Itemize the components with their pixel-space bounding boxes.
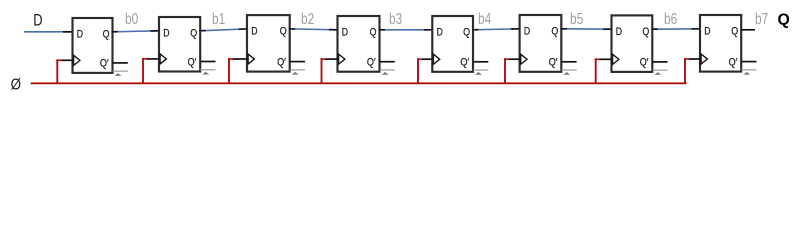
ground / termination marker below U5.Q-bar (473, 70, 488, 75)
svg-text:D: D (33, 11, 42, 29)
svg-text:b1: b1 (212, 11, 225, 28)
wire: U7.Q to U8.D (net b6) (651, 28, 701, 30)
svg-text:Ø: Ø (11, 76, 21, 93)
svg-text:Q: Q (103, 28, 110, 40)
D flip-flop U8 (700, 15, 741, 72)
svg-text:D: D (704, 25, 710, 37)
svg-text:D: D (163, 27, 169, 39)
svg-text:b4: b4 (478, 11, 492, 28)
ground / termination marker below U1.Q-bar (113, 71, 128, 76)
svg-text:Q′: Q′ (640, 57, 649, 69)
ground / termination marker below U7.Q-bar (652, 70, 667, 75)
svg-text:Q′: Q′ (460, 57, 469, 69)
svg-text:Q: Q (642, 26, 649, 38)
wire: clock bus riser to U3 CLK pin (228, 58, 248, 83)
svg-text:Q′: Q′ (367, 57, 376, 69)
wire: U2.Q to U3.D (net b1) (199, 29, 248, 31)
wire: serial input D to U1.D pin (24, 31, 74, 33)
svg-text:b5: b5 (570, 11, 583, 28)
svg-text:D: D (524, 25, 530, 37)
wire: clock bus riser to U8 CLK pin (684, 58, 701, 83)
D flip-flop U4 (338, 16, 380, 72)
D flip-flop U2 (159, 17, 200, 72)
svg-text:D: D (437, 26, 443, 38)
svg-text:Q′: Q′ (100, 58, 109, 70)
svg-text:b6: b6 (664, 11, 677, 28)
svg-text:Q: Q (551, 25, 558, 37)
wire: U8.Q serial output stub (740, 29, 755, 31)
wire: U4.Q-bar output stub (380, 61, 395, 63)
wire: U5.Q to U6.D (net b4) (472, 29, 521, 30)
svg-text:Q′: Q′ (188, 56, 197, 68)
wire: clock bus riser to U1 CLK pin (56, 59, 73, 83)
svg-text:D: D (77, 28, 83, 40)
svg-text:Q′: Q′ (277, 56, 286, 68)
wire: U6.Q to U7.D (net b5) (560, 28, 612, 30)
wire: U6.Q-bar output stub (561, 61, 576, 63)
svg-text:D: D (342, 26, 348, 38)
svg-text:b0: b0 (125, 11, 138, 28)
wire: clock bus riser to U7 CLK pin (595, 58, 613, 83)
wire: U8.Q-bar output stub (741, 61, 756, 63)
svg-text:D: D (251, 26, 257, 38)
svg-text:b2: b2 (301, 11, 314, 28)
wire: clock bus riser to U6 CLK pin (504, 58, 521, 83)
wire: clock bus net phi (red horizontal) (31, 82, 687, 84)
ground / termination marker below U2.Q-bar (200, 70, 215, 75)
svg-text:Q′: Q′ (729, 56, 738, 68)
wire: clock bus riser to U5 CLK pin (417, 58, 433, 83)
D flip-flop U7 (612, 15, 653, 72)
svg-text:Q: Q (778, 12, 790, 29)
wire: U2.Q-bar output stub (200, 61, 215, 63)
wire: U3.Q to U4.D (net b2) (289, 28, 339, 31)
wire: clock bus riser to U4 CLK pin (321, 58, 339, 83)
ground / termination marker below U4.Q-bar (380, 70, 395, 75)
ground / termination marker below U3.Q-bar (290, 70, 305, 75)
svg-text:b7: b7 (755, 11, 768, 28)
ground / termination marker below U8.Q-bar (741, 70, 756, 75)
svg-text:b3: b3 (389, 11, 402, 28)
svg-text:Q: Q (731, 25, 738, 37)
wire: U7.Q-bar output stub (652, 61, 667, 63)
wire: U3.Q-bar output stub (290, 61, 305, 63)
svg-text:Q: Q (463, 26, 470, 38)
svg-text:Q: Q (370, 26, 377, 38)
wire: U1.Q-bar output stub (113, 62, 128, 64)
wire: U1.Q to U2.D (net b0) (112, 31, 161, 32)
wire: U5.Q-bar output stub (473, 61, 488, 63)
svg-text:Q: Q (280, 26, 287, 38)
wire: U4.Q to U5.D (net b3) (379, 29, 434, 31)
ground / termination marker below U6.Q-bar (561, 70, 576, 75)
wire: clock bus riser to U2 CLK pin (142, 58, 160, 83)
svg-text:D: D (616, 26, 622, 38)
svg-text:Q: Q (190, 27, 197, 39)
D flip-flop U3 (247, 15, 290, 72)
D flip-flop U6 (520, 15, 562, 72)
D flip-flop U5 (432, 16, 473, 72)
D flip-flop U1 (73, 18, 113, 73)
svg-text:Q′: Q′ (549, 57, 558, 69)
